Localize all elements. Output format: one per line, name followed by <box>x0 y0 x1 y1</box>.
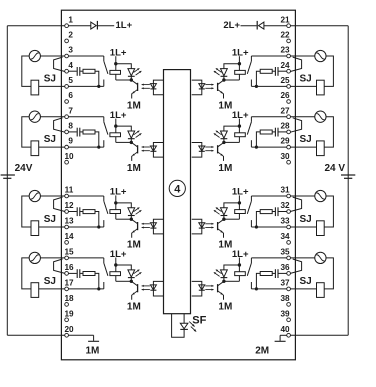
svg-text:1L+: 1L+ <box>232 187 249 198</box>
left group 3: wire terminal A <box>68 195 104 197</box>
left channel 4: wire to LED branch <box>116 265 132 270</box>
svg-text:1L+: 1L+ <box>116 20 133 31</box>
right channel 1: 1L+ feed wire <box>238 56 240 64</box>
svg-text:SJ: SJ <box>300 134 312 145</box>
right channel 4: status LED <box>221 270 228 277</box>
left group 4: wire terminal B <box>68 272 77 274</box>
left channel 2: 1L+ feed wire <box>115 119 117 127</box>
left group 2: wire capacitor to resistor <box>80 131 83 133</box>
left channel 3: output transistor <box>131 219 137 223</box>
terminal 9 <box>65 145 69 149</box>
svg-text:22: 22 <box>280 31 290 40</box>
left channel 1: optocoupler LED <box>150 84 156 89</box>
right group 1: junction dot <box>255 85 258 88</box>
left group 1: wire terminal B <box>68 70 77 72</box>
svg-text:29: 29 <box>280 137 290 146</box>
wire terminal 20 to 1M tap <box>68 334 93 336</box>
left channel 1: 1L+ feed wire <box>115 56 117 64</box>
terminal 23 <box>287 54 291 58</box>
right SJ group 1: sensor circle <box>315 50 326 61</box>
right SJ group 4: branch to second terminal <box>290 259 301 273</box>
svg-text:1L+: 1L+ <box>232 249 249 260</box>
svg-text:SF: SF <box>192 314 206 326</box>
svg-text:1L+: 1L+ <box>232 110 249 121</box>
left channel 4: node dot 1L+ <box>114 263 117 266</box>
left group 4: junction dot <box>97 287 100 290</box>
SF LED diode <box>180 323 188 329</box>
right channel 3: wire to LED branch <box>224 203 240 208</box>
left channel 2: junction dot <box>130 141 133 144</box>
left channel 3: wire LED to junction <box>130 216 132 220</box>
right group 1: capacitor <box>277 67 279 76</box>
left channel 2: node dot 1L+ <box>114 124 117 127</box>
left SJ group 4: wire load to terminal <box>39 288 65 290</box>
svg-text:SJ: SJ <box>44 134 56 145</box>
terminal 32 <box>287 210 291 214</box>
left group 3: wire terminal B <box>68 211 77 213</box>
right group 4: junction dot <box>255 287 258 290</box>
left channel 2: optocoupler LED <box>150 146 156 151</box>
svg-text:36: 36 <box>280 263 290 272</box>
right SJ group 4: load box <box>317 283 325 298</box>
right group 2: capacitor <box>277 128 279 137</box>
wire terminal 21 to diode D2 <box>264 25 287 27</box>
terminal 26 <box>287 100 291 104</box>
right channel 4: dropper resistor <box>238 265 240 272</box>
right group 3: capacitor <box>277 207 279 216</box>
right channel 4: junction dot <box>222 280 225 283</box>
left channel 1: optocoupler light arrows <box>142 84 150 86</box>
right group 3: wire terminal A <box>251 195 287 197</box>
right group 1: wire terminal B <box>278 70 287 72</box>
left channel 4: junction dot <box>130 280 133 283</box>
left group 4: resistor box <box>83 272 95 276</box>
left SJ group 2: wire load to terminal <box>39 146 65 148</box>
left channel 2: status LED <box>128 131 135 138</box>
terminal 12 <box>65 210 69 214</box>
right channel 3: junction dot <box>222 218 225 221</box>
right channel 1: optocoupler bracket to block <box>192 80 202 95</box>
right group 1: wire capacitor to resistor <box>272 70 275 72</box>
svg-text:6: 6 <box>68 91 73 100</box>
right SJ group 1: wire sensor to load <box>324 56 333 86</box>
svg-text:33: 33 <box>280 217 290 226</box>
svg-text:19: 19 <box>64 309 74 318</box>
right channel 2: status LED <box>221 131 228 138</box>
right channel 1: wire LED to junction <box>223 76 225 80</box>
left channel 3: optocoupler bracket to block <box>153 219 163 234</box>
svg-text:24V: 24V <box>15 163 33 174</box>
terminal 31 <box>287 194 291 198</box>
left SJ group 2: sensor circle <box>29 111 40 122</box>
left group 4: wire resistor to junction <box>95 273 99 289</box>
right group 3: switch contact <box>250 196 252 201</box>
left group 1: junction dot <box>97 85 100 88</box>
left channel 4: optocoupler light arrows <box>142 285 150 287</box>
svg-text:1L+: 1L+ <box>110 249 127 260</box>
svg-text:4: 4 <box>68 61 73 70</box>
right group 2: wire terminal B <box>278 131 287 133</box>
left SJ group 1: wire sensor to load <box>22 56 31 86</box>
left channel 4: dropper resistor <box>115 265 117 272</box>
terminal 2 <box>65 39 69 43</box>
svg-text:10: 10 <box>64 152 74 161</box>
left battery short bar <box>3 177 11 179</box>
terminal 36 <box>287 272 291 276</box>
right group 2: wire resistor to junction <box>256 132 260 147</box>
terminal 21 <box>287 24 291 28</box>
right channel 2: wire LED to junction <box>223 139 225 143</box>
right SJ group 4: wire sensor to terminal <box>290 257 315 259</box>
left group 2: wire terminal C <box>68 146 104 148</box>
left SJ group 4: sensor circle <box>29 252 40 263</box>
right channel 4: output transistor <box>218 281 224 285</box>
left SJ group 1: wire load to terminal <box>39 85 65 87</box>
svg-text:7: 7 <box>68 106 73 115</box>
terminal 19 <box>65 318 69 322</box>
terminal 8 <box>65 130 69 134</box>
terminal 7 <box>65 115 69 119</box>
left SJ group 4: wire sensor to load <box>22 258 31 289</box>
left SJ group 2: branch to second terminal <box>54 118 65 132</box>
left channel 3: junction dot <box>130 218 133 221</box>
right channel 4: optocoupler light arrows <box>205 285 213 287</box>
svg-text:1M: 1M <box>127 163 141 174</box>
right channel 4: LED arrows <box>216 270 222 274</box>
svg-text:16: 16 <box>64 263 74 272</box>
svg-text:4: 4 <box>174 184 181 196</box>
svg-text:35: 35 <box>280 248 290 257</box>
left group 2: wire terminal A <box>68 116 104 118</box>
terminal 13 <box>65 225 69 229</box>
right SJ group 1: wire load to terminal <box>290 85 316 87</box>
wire rail to terminal 1 <box>7 25 65 27</box>
left group 3: resistor box <box>83 210 95 214</box>
circled note 4 in block <box>169 180 185 196</box>
right channel 4: 1L+ feed wire <box>238 258 240 266</box>
terminal 22 <box>287 39 291 43</box>
left group 1: wire resistor to junction <box>95 71 99 86</box>
left channel 1: output transistor <box>131 80 137 84</box>
left SJ group 4: load box <box>31 283 39 298</box>
svg-text:1M: 1M <box>127 240 141 251</box>
right channel 3: status LED <box>221 208 228 215</box>
left SJ group 3: sensor circle <box>29 190 40 201</box>
right group 3: resistor box <box>260 210 272 214</box>
module enclosure box <box>61 10 295 360</box>
terminal 11 <box>65 194 69 198</box>
terminal 38 <box>287 303 291 307</box>
svg-text:28: 28 <box>280 122 290 131</box>
left SJ group 1: load box <box>31 80 39 95</box>
right group 3: junction dot <box>255 225 258 228</box>
right group 2: wire capacitor to resistor <box>272 131 275 133</box>
right channel 3: node dot 1L+ <box>238 201 241 204</box>
right channel 3: 1L+ feed wire <box>238 195 240 203</box>
diode D2 (2L+ feed) <box>259 22 264 29</box>
wire terminal 40 to 2M tap <box>280 334 287 336</box>
right channel 1: optocoupler light arrows <box>205 84 213 86</box>
svg-text:24: 24 <box>280 61 290 70</box>
terminal 34 <box>287 241 291 245</box>
right group 1: wire terminal C <box>251 85 287 87</box>
right channel 4: wire LED to junction <box>223 278 225 282</box>
terminal 20 <box>65 333 69 337</box>
right SJ group 1: wire sensor to terminal <box>290 55 315 57</box>
right channel 1: optocoupler LED <box>199 84 205 89</box>
left SJ group 3: branch to second terminal <box>54 197 65 211</box>
terminal 5 <box>65 85 69 89</box>
left SJ group 1: wire sensor to terminal <box>41 55 65 57</box>
left SJ group 4: wire sensor to terminal <box>41 257 65 259</box>
svg-text:1M: 1M <box>218 302 232 313</box>
block bottom stub <box>172 314 185 338</box>
left group 2: capacitor <box>76 128 78 137</box>
right channel 3: optocoupler bracket to block <box>192 219 202 234</box>
diode D1 (1L+ feed) <box>91 22 96 29</box>
right channel 1: junction dot <box>222 78 225 81</box>
left channel 2: wire LED to junction <box>130 139 132 143</box>
svg-text:17: 17 <box>64 279 74 288</box>
wire terminal 21 to rail <box>290 25 348 27</box>
right group 3: wire resistor to junction <box>256 212 260 228</box>
1M potential tap <box>93 335 95 341</box>
svg-text:39: 39 <box>280 309 290 318</box>
left group 4: wire capacitor to resistor <box>80 272 83 274</box>
left channel 1: node dot 1L+ <box>114 62 117 65</box>
svg-text:18: 18 <box>64 294 74 303</box>
right channel 3: optocoupler light arrows <box>205 223 213 225</box>
left SJ group 3: load box <box>31 221 39 236</box>
left 24V supply rail <box>6 26 8 336</box>
left group 4: switch contact <box>103 258 105 263</box>
svg-text:11: 11 <box>65 186 74 195</box>
left channel 3: node dot 1L+ <box>114 201 117 204</box>
left group 1: switch contact <box>103 56 105 61</box>
right group 4: capacitor <box>277 269 279 278</box>
left channel 3: optocoupler light arrows <box>142 223 150 225</box>
left SJ group 1: branch to second terminal <box>54 57 65 71</box>
right SJ group 4: wire load to terminal <box>290 288 316 290</box>
left channel 4: status LED <box>128 270 135 277</box>
terminal 27 <box>287 115 291 119</box>
terminal 6 <box>65 100 69 104</box>
right SJ group 4: sensor circle <box>315 252 326 263</box>
wire rail to terminal 20 <box>7 334 65 336</box>
svg-text:SJ: SJ <box>44 276 56 287</box>
left group 3: switch contact <box>103 196 105 201</box>
right channel 1: LED arrows <box>216 68 222 72</box>
left group 4: capacitor <box>76 269 78 278</box>
left channel 3: wire to LED branch <box>116 203 132 208</box>
left group 2: wire terminal B <box>68 131 77 133</box>
left channel 2: wire to LED branch <box>116 126 132 131</box>
left channel 4: optocoupler bracket to block <box>153 281 163 296</box>
right SJ group 1: branch to second terminal <box>290 57 301 71</box>
svg-text:24 V: 24 V <box>325 163 346 174</box>
wire terminal 1 to diode <box>68 25 90 27</box>
right group 2: wire terminal C <box>251 146 287 148</box>
right group 2: resistor box <box>260 130 272 134</box>
svg-text:38: 38 <box>280 294 290 303</box>
right group 2: junction dot <box>255 146 258 149</box>
svg-text:1M: 1M <box>127 100 141 111</box>
left group 2: wire resistor to junction <box>95 132 99 147</box>
left battery long bar <box>1 174 15 176</box>
svg-text:5: 5 <box>68 76 73 85</box>
right SJ group 2: branch to second terminal <box>290 118 301 132</box>
left channel 1: wire to LED branch <box>116 64 132 69</box>
left SJ group 2: load box <box>31 141 39 156</box>
terminal 17 <box>65 287 69 291</box>
central electronics block U1 <box>164 70 191 314</box>
svg-text:25: 25 <box>280 76 290 85</box>
left channel 2: optocoupler bracket to block <box>153 143 163 158</box>
left group 1: resistor box <box>83 69 95 73</box>
left group 3: wire resistor to junction <box>95 212 99 228</box>
left channel 3: LED arrows <box>134 208 140 212</box>
terminal 33 <box>287 225 291 229</box>
svg-text:31: 31 <box>280 186 290 195</box>
right channel 2: 1L+ feed wire <box>238 119 240 127</box>
svg-text:3: 3 <box>68 46 73 55</box>
right channel 2: output transistor <box>218 142 224 146</box>
terminal 29 <box>287 145 291 149</box>
svg-text:1M: 1M <box>218 240 232 251</box>
left channel 2: LED arrows <box>134 131 140 135</box>
right channel 2: dropper resistor <box>238 126 240 133</box>
left group 1: capacitor <box>76 67 78 76</box>
left channel 1: status LED <box>128 69 135 76</box>
right channel 4: optocoupler bracket to block <box>192 281 202 296</box>
svg-text:SJ: SJ <box>300 74 312 85</box>
svg-text:1M: 1M <box>218 100 232 111</box>
left SJ group 1: sensor circle <box>29 50 40 61</box>
right channel 1: node dot 1L+ <box>238 62 241 65</box>
left channel 2: optocoupler light arrows <box>142 146 150 148</box>
right SJ group 4: wire sensor to load <box>324 258 333 289</box>
left group 4: wire terminal C <box>68 288 104 290</box>
wire terminal 40 to rail <box>290 334 348 336</box>
left SJ group 4: branch to second terminal <box>54 259 65 273</box>
terminal 4 <box>65 69 69 73</box>
right SJ group 3: wire load to terminal <box>290 226 316 228</box>
terminal 3 <box>65 54 69 58</box>
left group 3: wire capacitor to resistor <box>80 211 83 213</box>
right channel 4: optocoupler LED <box>199 285 205 290</box>
svg-text:20: 20 <box>64 325 74 334</box>
svg-text:12: 12 <box>64 201 74 210</box>
right battery short bar <box>344 177 352 179</box>
right channel 3: dropper resistor <box>238 203 240 210</box>
right channel 1: wire to LED branch <box>224 64 240 69</box>
left group 4: wire terminal A <box>68 257 104 259</box>
terminal 28 <box>287 130 291 134</box>
right group 4: wire capacitor to resistor <box>272 272 275 274</box>
right group 4: wire terminal C <box>251 288 287 290</box>
svg-text:32: 32 <box>280 201 290 210</box>
terminal 25 <box>287 85 291 89</box>
left channel 3: optocoupler LED <box>150 223 156 228</box>
svg-text:SJ: SJ <box>300 276 312 287</box>
right group 4: wire terminal B <box>278 272 287 274</box>
left group 1: wire terminal A <box>68 55 104 57</box>
left group 3: junction dot <box>97 225 100 228</box>
svg-text:1: 1 <box>68 15 73 24</box>
right SJ group 3: wire sensor to terminal <box>290 195 315 197</box>
right group 1: wire terminal A <box>251 55 287 57</box>
left channel 4: output transistor <box>131 281 137 285</box>
terminal 15 <box>65 256 69 260</box>
left channel 2: dropper resistor <box>115 126 117 133</box>
right channel 1: output transistor <box>218 80 224 84</box>
svg-text:1L+: 1L+ <box>110 110 127 121</box>
right SJ group 3: sensor circle <box>315 190 326 201</box>
left group 1: wire terminal C <box>68 85 104 87</box>
right group 4: wire terminal A <box>251 257 287 259</box>
terminal 1 <box>65 24 69 28</box>
svg-text:SJ: SJ <box>44 74 56 85</box>
right SJ group 2: wire load to terminal <box>290 146 316 148</box>
right 24V supply rail <box>347 26 349 336</box>
right channel 3: wire LED to junction <box>223 216 225 220</box>
svg-text:26: 26 <box>280 91 290 100</box>
right group 4: wire resistor to junction <box>256 273 260 289</box>
right battery long bar <box>341 174 355 176</box>
left group 2: junction dot <box>97 146 100 149</box>
svg-text:13: 13 <box>64 217 74 226</box>
right channel 2: wire to LED branch <box>224 126 240 131</box>
right group 2: wire terminal A <box>251 116 287 118</box>
svg-text:23: 23 <box>280 46 290 55</box>
right channel 1: status LED <box>221 69 228 76</box>
right channel 2: LED arrows <box>216 131 222 135</box>
svg-text:8: 8 <box>68 122 73 131</box>
svg-text:SJ: SJ <box>300 214 312 225</box>
right channel 3: output transistor <box>218 219 224 223</box>
right group 3: wire capacitor to resistor <box>272 211 275 213</box>
left group 2: switch contact <box>103 117 105 122</box>
terminal 37 <box>287 287 291 291</box>
right SJ group 3: load box <box>317 221 325 236</box>
right channel 2: node dot 1L+ <box>238 124 241 127</box>
right group 1: switch contact <box>250 56 252 61</box>
right channel 1: dropper resistor <box>238 64 240 71</box>
svg-text:15: 15 <box>64 248 74 257</box>
terminal 10 <box>65 160 69 164</box>
right channel 2: optocoupler bracket to block <box>192 143 202 158</box>
left SJ group 3: wire load to terminal <box>39 226 65 228</box>
left channel 3: dropper resistor <box>115 203 117 210</box>
left channel 4: wire LED to junction <box>130 278 132 282</box>
terminal 39 <box>287 318 291 322</box>
left group 1: wire capacitor to resistor <box>80 70 83 72</box>
left channel 4: optocoupler LED <box>150 285 156 290</box>
left group 2: resistor box <box>83 130 95 134</box>
wire diode D2 to 2L+ label <box>241 25 257 27</box>
terminal 40 <box>287 333 291 337</box>
left channel 3: status LED <box>128 208 135 215</box>
right SJ group 3: branch to second terminal <box>290 197 301 211</box>
right channel 2: junction dot <box>222 141 225 144</box>
right SJ group 2: sensor circle <box>315 111 326 122</box>
terminal 35 <box>287 256 291 260</box>
right SJ group 2: wire sensor to load <box>324 117 333 147</box>
left group 3: wire terminal C <box>68 226 104 228</box>
svg-text:2: 2 <box>68 31 73 40</box>
right group 3: wire terminal B <box>278 211 287 213</box>
terminal 14 <box>65 241 69 245</box>
